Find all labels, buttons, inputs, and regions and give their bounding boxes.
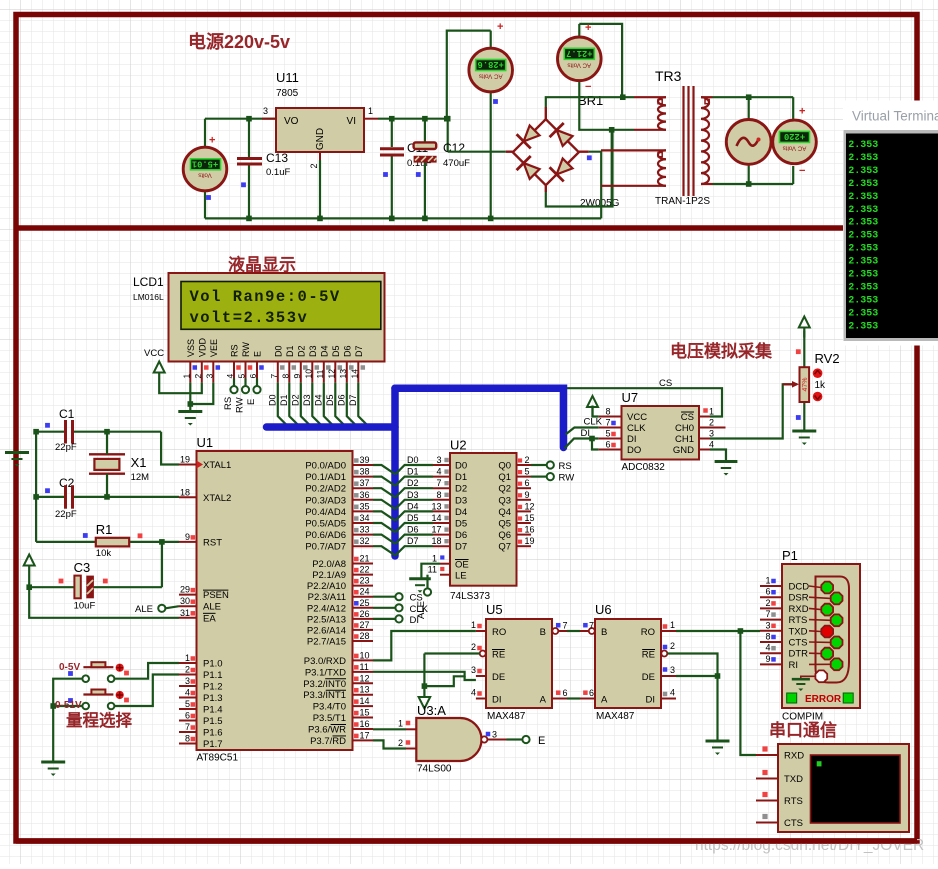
svg-text:RW: RW: [235, 397, 246, 413]
svg-text:volt=2.353v: volt=2.353v: [190, 309, 309, 327]
wire AC source bottom: [713, 165, 794, 187]
svg-text:23: 23: [360, 576, 370, 586]
switch 0-5V: [68, 662, 129, 682]
svg-text:2.353: 2.353: [848, 257, 878, 268]
wire bridge bottom to transformer: [546, 131, 613, 207]
svg-text:10k: 10k: [96, 548, 112, 559]
svg-text:+21.7: +21.7: [566, 48, 592, 58]
svg-text:13: 13: [360, 685, 370, 695]
voltmeter +220 AC: [773, 106, 817, 178]
svg-text:C1: C1: [59, 407, 75, 421]
svg-text:10: 10: [303, 369, 313, 379]
svg-text:GND: GND: [315, 128, 326, 150]
svg-text:3: 3: [492, 730, 497, 740]
svg-text:7: 7: [269, 374, 279, 379]
svg-text:D4: D4: [319, 345, 329, 357]
svg-text:Q4: Q4: [498, 507, 511, 518]
crystal X1 12M: [89, 429, 149, 500]
AC source 220V: [726, 112, 771, 164]
svg-text:AC Volts: AC Volts: [783, 144, 807, 151]
terminal E: [246, 379, 261, 406]
svg-text:TXD: TXD: [784, 774, 803, 785]
connector P1 COMPIM: [760, 548, 860, 723]
svg-text:16: 16: [360, 719, 370, 729]
svg-text:RS: RS: [559, 461, 572, 472]
svg-text:9: 9: [185, 532, 190, 542]
wire switch1 to P1.0: [115, 663, 180, 679]
svg-text:XTAL2: XTAL2: [203, 493, 231, 504]
svg-text:DE: DE: [642, 672, 655, 683]
svg-text:+220: +220: [784, 131, 805, 141]
svg-text:D1: D1: [455, 472, 467, 483]
svg-text:4: 4: [670, 688, 675, 698]
svg-text:VO: VO: [284, 116, 299, 127]
svg-text:ALE: ALE: [203, 602, 221, 613]
svg-text:2.353: 2.353: [848, 321, 878, 332]
svg-text:Volts: Volts: [198, 172, 211, 179]
svg-text:D0: D0: [267, 394, 277, 406]
switch 0-51V: [68, 690, 129, 710]
svg-text:1k: 1k: [815, 380, 827, 391]
svg-text:VI: VI: [347, 116, 356, 127]
svg-text:P3.0/RXD: P3.0/RXD: [304, 656, 346, 667]
driver U5 MAX487: [470, 602, 568, 722]
svg-text:2.353: 2.353: [848, 295, 878, 306]
svg-text:47%: 47%: [802, 377, 809, 391]
svg-text:DO: DO: [627, 445, 641, 456]
wires LCD data pins to bus: [267, 383, 369, 427]
svg-text:35: 35: [360, 501, 370, 511]
wire bus to ADC CLK: [566, 417, 603, 435]
svg-text:8: 8: [280, 374, 290, 379]
svg-text:13: 13: [431, 501, 441, 511]
wire switches to ground: [50, 679, 82, 762]
svg-text:1: 1: [670, 620, 675, 630]
svg-text:5: 5: [237, 374, 247, 379]
svg-text:39: 39: [360, 455, 370, 465]
svg-text:36: 36: [360, 490, 370, 500]
svg-text:0-5V: 0-5V: [59, 662, 80, 673]
svg-text:EA: EA: [203, 613, 216, 624]
svg-text:4: 4: [471, 688, 476, 698]
svg-text:13: 13: [338, 369, 348, 379]
svg-text:VCC: VCC: [144, 348, 164, 359]
svg-text:D3: D3: [302, 394, 312, 406]
svg-text:MAX487: MAX487: [596, 711, 635, 722]
wire P3.7 RD to U3 in2: [373, 740, 406, 748]
svg-text:D7: D7: [455, 542, 467, 553]
svg-text:2: 2: [525, 455, 530, 465]
svg-text:AC Volts: AC Volts: [479, 73, 503, 80]
svg-text:7: 7: [589, 621, 594, 631]
svg-text:5: 5: [525, 467, 530, 477]
svg-text:VEE: VEE: [209, 339, 219, 357]
svg-text:2.353: 2.353: [848, 166, 878, 177]
svg-text:P2.6/A14: P2.6/A14: [307, 625, 346, 636]
ground U2 OE: [409, 577, 431, 580]
svg-text:19: 19: [180, 455, 190, 465]
svg-text:P1.7: P1.7: [203, 739, 223, 750]
svg-text:12: 12: [326, 369, 336, 379]
svg-text:D1: D1: [407, 467, 419, 477]
svg-text:+28.6: +28.6: [477, 59, 503, 69]
svg-text:P0.5/AD5: P0.5/AD5: [305, 519, 346, 530]
svg-text:Virtual Termina: Virtual Termina: [852, 109, 938, 124]
wire P3.0 RXD to U5 RO: [373, 631, 476, 660]
svg-text:CH1: CH1: [675, 434, 694, 445]
svg-text:RI: RI: [789, 660, 799, 671]
bridge rectifier BR1 2W005G: [506, 107, 620, 209]
ground U6: [706, 740, 730, 743]
svg-text:DI: DI: [627, 434, 637, 445]
svg-text:−: −: [799, 165, 805, 177]
svg-text:CS: CS: [410, 593, 423, 604]
svg-text:P0.7/AD7: P0.7/AD7: [305, 542, 346, 553]
ground LCD: [178, 410, 202, 413]
terminal RS: [223, 379, 238, 411]
svg-text:4: 4: [436, 467, 441, 477]
latch U2 74LS373: [428, 438, 535, 603]
svg-text:CLK: CLK: [627, 423, 646, 434]
svg-text:D1: D1: [279, 394, 289, 406]
svg-text:RW: RW: [559, 473, 575, 484]
svg-text:AT89C51: AT89C51: [197, 753, 239, 764]
svg-text:2.353: 2.353: [848, 179, 878, 190]
ground ADC: [715, 460, 738, 463]
svg-text:0-51V: 0-51V: [55, 700, 82, 711]
svg-text:DI: DI: [646, 695, 656, 706]
svg-text:14: 14: [431, 513, 441, 523]
svg-text:D5: D5: [407, 513, 419, 523]
svg-text:CS: CS: [659, 378, 672, 389]
svg-text:D5: D5: [325, 394, 335, 406]
svg-text:17: 17: [431, 525, 441, 535]
svg-text:37: 37: [360, 478, 370, 488]
terminal CLK: [395, 604, 428, 615]
svg-text:R1: R1: [96, 522, 113, 537]
svg-text:P2.2/A10: P2.2/A10: [307, 581, 346, 592]
svg-text:DI: DI: [581, 428, 591, 439]
svg-text:Vol Ran9e:0-5V: Vol Ran9e:0-5V: [190, 288, 341, 306]
svg-text:ALE: ALE: [135, 604, 153, 615]
wire LCD VDD to VCC: [159, 383, 202, 394]
power VCC terminal reset: [24, 555, 35, 591]
svg-text:VSS: VSS: [186, 339, 196, 357]
svg-text:D6: D6: [336, 394, 346, 406]
svg-text:D7: D7: [354, 345, 364, 357]
svg-text:+5.01: +5.01: [192, 159, 218, 169]
svg-text:CLK: CLK: [584, 417, 603, 428]
svg-text:25: 25: [360, 598, 370, 608]
power VCC terminal LCD: [144, 348, 165, 383]
svg-text:PSEN: PSEN: [203, 590, 229, 601]
wires bus to U2 inputs: [395, 455, 433, 556]
svg-text:+: +: [209, 135, 215, 147]
wire ADC GND to ground: [710, 450, 726, 462]
svg-text:+: +: [799, 106, 805, 118]
svg-text:−: −: [585, 81, 591, 93]
svg-text:14: 14: [349, 369, 359, 379]
svg-text:4: 4: [225, 374, 235, 379]
svg-text:Q2: Q2: [498, 484, 511, 495]
ground RV2: [792, 430, 816, 433]
svg-text:7: 7: [765, 609, 770, 619]
svg-text:D6: D6: [455, 530, 467, 541]
voltmeter +5.01: [183, 119, 227, 219]
svg-text:D1: D1: [285, 345, 295, 357]
svg-text:27: 27: [360, 620, 370, 630]
svg-text:P2.0/A8: P2.0/A8: [312, 559, 346, 570]
svg-text:30: 30: [180, 596, 190, 606]
svg-text:1: 1: [368, 106, 373, 116]
wire U6 RE DE to ground: [667, 654, 720, 741]
wire P3.6 WR to U3 in1: [373, 728, 406, 730]
svg-text:22: 22: [360, 565, 370, 575]
svg-text:D3: D3: [455, 495, 467, 506]
wire P2.3 to CS terminal: [373, 596, 395, 598]
svg-text:U3:A: U3:A: [417, 703, 446, 718]
svg-text:16: 16: [525, 525, 535, 535]
wire ADC CH1 to RV2 wiper: [710, 384, 797, 438]
svg-text:RTS: RTS: [789, 615, 808, 626]
svg-text:E: E: [253, 351, 263, 357]
svg-text:P3.5/T1: P3.5/T1: [313, 713, 346, 724]
svg-text:D6: D6: [342, 345, 352, 357]
svg-text:C3: C3: [74, 560, 91, 575]
capacitor C11: [380, 119, 431, 218]
svg-text:Q7: Q7: [498, 542, 511, 553]
svg-text:RST: RST: [203, 537, 222, 548]
capacitor C13: [237, 119, 290, 219]
wire RST to C3: [161, 542, 163, 587]
svg-text:P3.6/WR: P3.6/WR: [308, 724, 346, 735]
svg-text:LM016L: LM016L: [133, 292, 164, 302]
driver U6 MAX487: [580, 602, 677, 722]
svg-text:P0.1/AD1: P0.1/AD1: [305, 472, 346, 483]
svg-text:量程选择: 量程选择: [66, 710, 133, 730]
wires U1 P0 to bus: [373, 465, 395, 556]
svg-text:Q3: Q3: [498, 495, 511, 506]
LCD LCD1 LM016L: [133, 273, 385, 383]
wire U5 A to U6 A: [567, 697, 580, 699]
svg-text:ERROR: ERROR: [805, 694, 842, 705]
svg-text:8: 8: [765, 632, 770, 642]
wire bridge top node: [546, 94, 634, 107]
svg-text:8: 8: [436, 490, 441, 500]
terminal E output: [522, 735, 545, 747]
svg-text:7: 7: [605, 418, 610, 428]
svg-text:P3.7/RD: P3.7/RD: [310, 736, 346, 747]
terminal DI: [395, 615, 419, 626]
svg-text:P1.2: P1.2: [203, 682, 223, 693]
svg-text:3: 3: [204, 374, 214, 379]
svg-text:D3: D3: [407, 490, 419, 500]
svg-text:CTS: CTS: [784, 818, 803, 829]
wire power rail: [205, 216, 601, 222]
svg-text:Q0: Q0: [498, 461, 511, 472]
svg-text:P2.3/A11: P2.3/A11: [308, 592, 346, 603]
svg-text:2.353: 2.353: [848, 231, 878, 242]
svg-text:B: B: [540, 627, 546, 638]
svg-text:11: 11: [360, 662, 369, 672]
wire U11 GND to rail: [319, 160, 321, 218]
wire bridge left corner to VI node: [448, 151, 506, 153]
svg-text:2: 2: [765, 598, 770, 608]
svg-text:18: 18: [180, 487, 190, 497]
svg-text:11: 11: [428, 565, 437, 575]
svg-text:DSR: DSR: [789, 593, 809, 604]
capacitor C1: [33, 407, 161, 453]
voltmeter +28.6 AC: [444, 21, 513, 218]
capacitor C3 10uF: [29, 560, 162, 612]
terminal ALE left: [135, 604, 179, 615]
svg-text:Q1: Q1: [498, 472, 511, 483]
wire U3 out to E terminal: [507, 738, 523, 740]
wire ADC CS net: [567, 378, 722, 417]
svg-text:MAX487: MAX487: [487, 711, 526, 722]
svg-text:17: 17: [360, 730, 370, 740]
svg-text:5: 5: [185, 699, 190, 709]
svg-text:3: 3: [765, 620, 770, 630]
svg-text:2: 2: [709, 418, 714, 428]
svg-text:P2.4/A12: P2.4/A12: [307, 603, 346, 614]
capacitor C2: [36, 476, 179, 520]
svg-text:2.353: 2.353: [848, 308, 878, 319]
svg-text:U7: U7: [622, 390, 639, 405]
svg-text:D4: D4: [407, 501, 419, 511]
terminal ALE right: [416, 588, 431, 619]
svg-text:29: 29: [180, 585, 190, 595]
svg-text:1: 1: [765, 576, 770, 586]
svg-text:1: 1: [181, 374, 191, 379]
svg-text:串口通信: 串口通信: [769, 720, 837, 740]
svg-text:38: 38: [360, 467, 370, 477]
svg-text:XTAL1: XTAL1: [203, 460, 231, 471]
svg-text:DTR: DTR: [789, 649, 809, 660]
svg-text:2.353: 2.353: [848, 205, 878, 216]
svg-text:11: 11: [315, 369, 325, 378]
svg-text:U11: U11: [276, 70, 299, 85]
svg-text:2.353: 2.353: [848, 218, 878, 229]
svg-text:D2: D2: [290, 394, 300, 406]
wire P2.5 to DI terminal: [373, 618, 395, 620]
svg-text:10uF: 10uF: [74, 601, 96, 612]
pin marker XTAL1 clock arrow: [197, 461, 204, 469]
svg-text:D0: D0: [455, 461, 467, 472]
svg-text:4: 4: [709, 440, 714, 450]
wire switch2 to P1.1: [115, 675, 180, 707]
wire U2 Q0 to RS: [531, 464, 547, 466]
mcu U1 AT89C51: [179, 435, 373, 764]
svg-text:2: 2: [398, 738, 403, 748]
svg-text:D7: D7: [348, 394, 358, 406]
svg-text:2.353: 2.353: [848, 153, 878, 164]
svg-text:7: 7: [563, 621, 568, 631]
svg-text:U6: U6: [595, 602, 612, 617]
svg-text:P0.4/AD4: P0.4/AD4: [305, 507, 346, 518]
svg-text:P2.5/A13: P2.5/A13: [307, 614, 346, 625]
svg-text:7805: 7805: [276, 88, 299, 99]
svg-text:2.353: 2.353: [848, 270, 878, 281]
svg-text:10: 10: [360, 650, 370, 660]
wire bridge right corner to rail: [589, 152, 601, 219]
svg-text:33: 33: [360, 525, 370, 535]
svg-text:2: 2: [471, 642, 476, 652]
svg-text:4: 4: [765, 643, 770, 653]
svg-text:0.1uF: 0.1uF: [266, 167, 290, 178]
svg-text:3: 3: [709, 429, 714, 439]
wire U6 RO to COMPIM TXD: [676, 628, 760, 634]
svg-text:电压模拟采集: 电压模拟采集: [670, 341, 773, 361]
svg-text:P1.1: P1.1: [203, 670, 223, 681]
svg-text:24: 24: [360, 587, 370, 597]
svg-text:3: 3: [185, 676, 190, 686]
svg-text:8: 8: [185, 734, 190, 744]
svg-text:A: A: [540, 695, 547, 706]
svg-text:RO: RO: [641, 627, 655, 638]
terminal RW right: [547, 473, 574, 484]
svg-text:Q6: Q6: [498, 530, 511, 541]
svg-text:P0.6/AD6: P0.6/AD6: [305, 530, 346, 541]
svg-text:E: E: [538, 735, 545, 747]
svg-text:D4: D4: [313, 394, 323, 406]
potentiometer RV2 1k: [783, 331, 840, 432]
svg-text:3: 3: [670, 665, 675, 675]
wire U11 input node: [205, 116, 276, 122]
wire EA to VCC: [29, 587, 179, 618]
svg-text:18: 18: [431, 536, 441, 546]
power VCC terminal ADC: [587, 396, 599, 417]
svg-text:6: 6: [605, 440, 610, 450]
svg-text:D2: D2: [296, 345, 306, 357]
svg-text:21: 21: [360, 554, 370, 564]
regulator U11 7805: [262, 70, 378, 169]
svg-text:RXD: RXD: [784, 751, 804, 762]
wire bridge to transformer lower lead: [579, 97, 634, 132]
svg-text:1: 1: [709, 407, 714, 417]
terminal RS right: [547, 461, 572, 472]
svg-text:D4: D4: [455, 507, 467, 518]
svg-text:P3.2/INT0: P3.2/INT0: [303, 679, 346, 690]
svg-text:AC Volts: AC Volts: [567, 61, 591, 68]
svg-text:31: 31: [180, 608, 190, 618]
svg-text:A: A: [601, 695, 608, 706]
wire U5 B to U6 B: [567, 630, 580, 632]
svg-text:RV2: RV2: [815, 351, 840, 366]
svg-text:34: 34: [360, 513, 370, 523]
terminal CS: [395, 593, 422, 604]
svg-text:32: 32: [360, 536, 370, 546]
svg-text:1: 1: [432, 554, 437, 564]
svg-text:DE: DE: [492, 672, 505, 683]
svg-text:C13: C13: [266, 151, 288, 165]
svg-text:P2.1/A9: P2.1/A9: [312, 570, 346, 581]
svg-text:6: 6: [525, 478, 530, 488]
svg-text:RW: RW: [241, 342, 251, 357]
svg-text:P0.3/AD3: P0.3/AD3: [305, 495, 346, 506]
svg-text:LE: LE: [455, 571, 467, 582]
svg-text:P3.3/INT1: P3.3/INT1: [303, 690, 346, 701]
svg-text:P1.5: P1.5: [203, 716, 223, 727]
svg-text:P1.4: P1.4: [203, 705, 223, 716]
svg-text:9: 9: [765, 654, 770, 664]
svg-text:D3: D3: [308, 345, 318, 357]
svg-text:15: 15: [525, 513, 535, 523]
svg-text:1: 1: [398, 719, 403, 729]
svg-text:X1: X1: [131, 455, 147, 470]
wire AC source top: [713, 94, 794, 112]
transformer TR3 TRAN-1P2S: [601, 68, 713, 207]
